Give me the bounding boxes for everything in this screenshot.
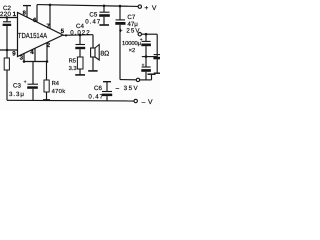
ground (speaker) (88, 70, 97, 72)
speaker LS1 (91, 45, 100, 71)
svg-text:1: 1 (13, 11, 17, 18)
svg-text:220: 220 (0, 11, 12, 18)
wire center tap (142, 56, 157, 58)
svg-text:R4: R4 (52, 81, 60, 87)
node center tap (145, 55, 148, 58)
svg-text:5: 5 (61, 28, 65, 35)
wire +V top rail (37, 5, 138, 7)
node pin7/rail (49, 4, 52, 7)
terminal +V (138, 5, 141, 8)
capacitor C6 with top bar (102, 82, 112, 101)
svg-text:7: 7 (46, 23, 50, 30)
capacitor C3 (27, 62, 38, 101)
node C7/rail (119, 5, 122, 8)
capacitor C4 (75, 35, 85, 57)
svg-text:2: 2 (47, 42, 51, 49)
svg-text:R5: R5 (69, 59, 76, 65)
pin 4 stub (34, 48, 36, 61)
capacitor C8 10000u upper (141, 34, 151, 56)
wire pins 3-4-2 bus (24, 61, 47, 63)
svg-text:9: 9 (12, 50, 16, 57)
svg-text:+: + (24, 80, 27, 86)
op-amp U1 TDA1514A triangle (18, 13, 64, 57)
wire right edge branch (153, 34, 160, 73)
svg-text:3.3μ: 3.3μ (9, 91, 24, 98)
svg-text:4: 4 (30, 49, 34, 56)
svg-text:– V: – V (142, 99, 153, 106)
svg-text:+ 25V: + 25V (119, 27, 140, 34)
node filter cap top (145, 33, 148, 36)
resistor R4 (43, 62, 50, 101)
terminal +35V (138, 33, 141, 36)
terminal -V (134, 99, 137, 102)
terminal -35V (136, 78, 139, 81)
svg-text:+: + (142, 63, 145, 68)
svg-text:0.47: 0.47 (85, 18, 101, 25)
wire +35V line (142, 33, 158, 35)
svg-text:C6: C6 (94, 85, 102, 92)
capacitor C2 (3, 18, 12, 51)
ground stub (-35V wire) (148, 74, 156, 80)
svg-text:3.3: 3.3 (69, 65, 77, 72)
svg-text:– 35V: – 35V (116, 85, 139, 92)
capacitor C9 10000u lower (141, 57, 151, 80)
node C5/rail (103, 5, 106, 8)
wire input to pin 1 (0, 17, 18, 19)
capacitor C5 (99, 6, 110, 25)
pin 6 stub (36, 5, 38, 23)
pin 3 stub (23, 54, 25, 62)
svg-text:6: 6 (33, 17, 37, 24)
node input junction (6, 16, 9, 19)
node pin2 (46, 60, 49, 63)
svg-text:C3: C3 (13, 82, 21, 89)
svg-text:×2: ×2 (129, 47, 136, 54)
resistor R1 (4, 50, 9, 100)
wire output to speaker (92, 35, 94, 48)
wire -35V right of terminal (140, 79, 152, 81)
svg-text:+ V: + V (144, 5, 156, 12)
svg-text:0.022: 0.022 (70, 29, 90, 36)
pin 8 stub with bar (23, 6, 31, 18)
node feedback junction (6, 49, 9, 52)
svg-text:0.47: 0.47 (88, 94, 103, 101)
svg-text:8: 8 (23, 9, 27, 16)
pin 2 stub (46, 43, 48, 62)
wire output pin 5 (63, 34, 93, 37)
ground (C5) (99, 24, 109, 26)
pin 7 stub (49, 5, 51, 29)
wire -35V line (120, 79, 136, 81)
wire bottom rail to -V (7, 99, 134, 102)
svg-text:TDA1514A: TDA1514A (18, 31, 47, 40)
svg-text:470k: 470k (52, 88, 66, 95)
svg-text:10000μ: 10000μ (122, 40, 141, 47)
ground (R5) (75, 74, 85, 76)
resistor R5 (77, 57, 83, 74)
node pin3 (23, 60, 26, 63)
wire pin 9 (0, 49, 18, 51)
capacitor C7 (115, 6, 125, 80)
node output/C4 (79, 34, 82, 37)
node pin5 (65, 34, 67, 36)
svg-text:8Ω: 8Ω (100, 51, 109, 58)
svg-text:3: 3 (20, 54, 24, 61)
